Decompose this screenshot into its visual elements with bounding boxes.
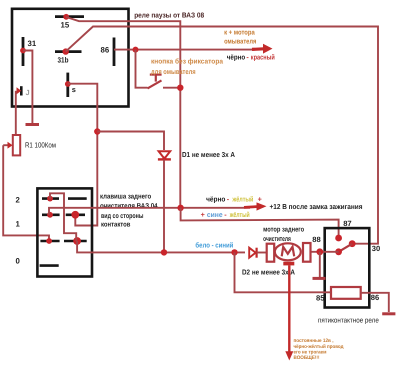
- wire pin s down to switch row2: [68, 84, 98, 226]
- wire pin31 to ground: [23, 51, 32, 124]
- svg-text:31b: 31b: [58, 56, 69, 65]
- motor M1 (мотор заднего очистителя): [267, 243, 311, 265]
- svg-text:клавиша заднего: клавиша заднего: [100, 193, 151, 200]
- svg-text:R1 100Ком: R1 100Ком: [25, 140, 56, 149]
- relay lever contact: [339, 244, 353, 252]
- junction dot s-wire / D1 branch: [94, 128, 100, 134]
- pin 87 dot: [335, 235, 342, 242]
- junction dot bus / node A: [177, 205, 183, 211]
- svg-text:30: 30: [372, 244, 380, 253]
- pin 86: [101, 38, 115, 67]
- svg-text:D2 не менее 3х А: D2 не менее 3х А: [242, 268, 295, 277]
- wire 88 from motor: [311, 251, 339, 253]
- svg-text:ВООБЩЕ!!!: ВООБЩЕ!!!: [294, 355, 320, 361]
- wire junction down to washer button: [136, 50, 148, 88]
- arrow +12V: [244, 202, 267, 210]
- svg-text:0: 0: [16, 256, 21, 265]
- svg-text:+: +: [258, 194, 262, 203]
- label клавиша заднего очистителя: [100, 193, 158, 228]
- resistor R1 100Ком (potentiometer): [13, 135, 56, 155]
- svg-text:омывателя: омывателя: [224, 38, 256, 45]
- svg-text:сине: сине: [207, 210, 223, 219]
- contact row 2: [42, 211, 85, 219]
- pin J: [17, 86, 30, 97]
- svg-text:кнопка без фиксатора: кнопка без фиксатора: [151, 57, 223, 65]
- contact row 3: [40, 237, 86, 245]
- svg-text:пятиконтактное реле: пятиконтактное реле: [318, 315, 379, 324]
- pin s: [65, 73, 76, 97]
- wire pin15 to node A vertical: [66, 17, 180, 88]
- svg-text:жёлтый: жёлтый: [232, 194, 254, 203]
- label постоянные 12в: [294, 338, 345, 361]
- ground (pin 88): [313, 252, 326, 279]
- +12V bus wire: [49, 208, 250, 215]
- wire junction to diode D1: [97, 132, 164, 151]
- diode D1: [158, 151, 171, 252]
- wire сине-жёлтый to pin 87: [181, 208, 339, 238]
- relay U1 box (реле паузы от ВАЗ 08): [12, 9, 129, 107]
- wire pin86 to washer motor +: [114, 49, 258, 51]
- svg-text:D1 не менее 3х А: D1 не менее 3х А: [182, 150, 235, 159]
- arrow to washer motor: [252, 44, 273, 54]
- pivot dot pin 88 side: [335, 248, 342, 255]
- svg-text:к + мотора: к + мотора: [224, 30, 255, 37]
- junction dot D1 / бело-синий: [161, 249, 167, 255]
- svg-text:J: J: [26, 88, 30, 97]
- svg-text:s: s: [72, 85, 76, 94]
- svg-text:15: 15: [61, 21, 70, 30]
- svg-text:вид со стороны: вид со стороны: [101, 213, 144, 220]
- ground (pin 86): [382, 312, 395, 315]
- pin 31: [20, 37, 37, 66]
- junction dot 88/ground: [316, 248, 323, 255]
- wire wiper to switch row3: [3, 145, 49, 241]
- wire 31b to pin30 of relay K2 (right bus): [66, 27, 378, 244]
- svg-text:жёлтый: жёлтый: [229, 210, 250, 219]
- wire node A down to +12V bus: [179, 88, 181, 208]
- junction dot on 86 wire: [133, 47, 139, 53]
- diode D2: [249, 248, 267, 258]
- svg-text:очистителя ВАЗ 04: очистителя ВАЗ 04: [100, 203, 158, 210]
- svg-text:85: 85: [316, 294, 325, 303]
- pin 30 dot: [349, 240, 356, 247]
- wire motor to permanent +12 (down arrow): [285, 265, 293, 360]
- svg-text:для омывателя: для омывателя: [151, 69, 196, 76]
- svg-text:87: 87: [343, 219, 351, 228]
- svg-text:88: 88: [312, 235, 320, 244]
- svg-text:контактов: контактов: [101, 221, 131, 228]
- relay coil: [331, 287, 361, 299]
- svg-text:+: +: [201, 210, 205, 219]
- pin 15: [55, 14, 84, 30]
- wire row1 to row3 jumper: [50, 193, 76, 241]
- svg-text:чёрно: чёрно: [227, 52, 246, 61]
- ground (pin31): [26, 123, 40, 126]
- contact row 1: [42, 196, 87, 202]
- pin 31b: [55, 48, 82, 64]
- node A dot (switch / pin15 wire): [177, 85, 183, 91]
- switch S1 box (клавиша заднего очистителя): [37, 188, 92, 276]
- svg-text:1: 1: [16, 219, 21, 228]
- бело-синий wire: [77, 241, 245, 252]
- svg-text:мотор заднего: мотор заднего: [263, 226, 304, 233]
- svg-text:реле паузы от ВАЗ 08: реле паузы от ВАЗ 08: [134, 11, 204, 20]
- svg-text:+12 В после замка зажигания: +12 В после замка зажигания: [270, 202, 363, 211]
- svg-text:красный: красный: [251, 52, 275, 61]
- svg-text:86: 86: [101, 46, 110, 55]
- svg-text:31: 31: [28, 39, 37, 48]
- contact row 0: [40, 264, 59, 267]
- wiper arrow into R1: [3, 142, 12, 149]
- svg-text:86: 86: [371, 293, 379, 302]
- svg-text:очистителя: очистителя: [263, 236, 291, 243]
- washer button S2 (кнопка без фиксатора): [148, 75, 181, 89]
- svg-text:бело - синий: бело - синий: [195, 241, 233, 250]
- wire pin 86 to ground: [361, 293, 389, 312]
- junction dot бело-синий / 85 branch: [231, 249, 237, 255]
- svg-text:2: 2: [16, 195, 21, 204]
- wire branch to relay coil pin 85: [235, 252, 332, 292]
- svg-text:чёрно: чёрно: [206, 194, 226, 203]
- wire pin J down to R1: [15, 91, 17, 135]
- relay K2 box (пятиконтактное реле): [325, 228, 370, 307]
